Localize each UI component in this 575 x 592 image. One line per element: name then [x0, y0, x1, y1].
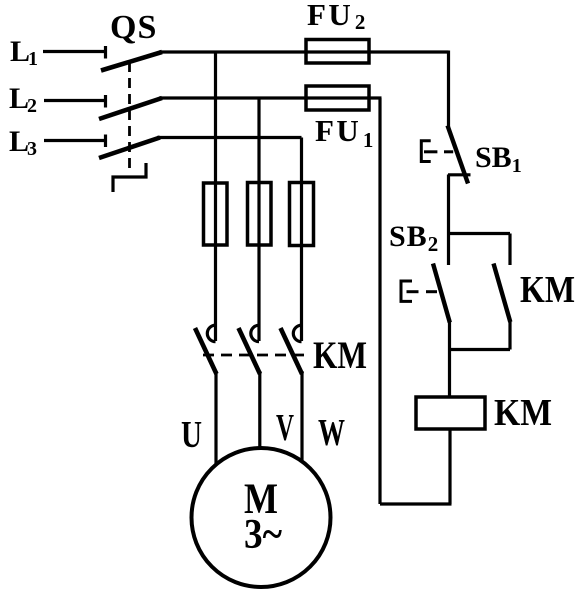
svg-text:KM: KM [494, 392, 552, 434]
motor M body [192, 448, 331, 587]
wire branch top node [449, 232, 511, 235]
wire FU1 output down to bottom rail [378, 98, 381, 504]
switch QS handle [113, 163, 146, 192]
wire L2 lead [44, 99, 104, 102]
wire SB2 to coil [448, 322, 451, 397]
svg-text:QS: QS [110, 9, 157, 46]
pushbutton SB2 blade [433, 264, 450, 323]
wire L1 lead [43, 50, 104, 53]
wire L2 phase through FU1 to return rail [159, 96, 382, 99]
wire SB1 to SB2 [447, 175, 450, 266]
contactor KM auxiliary contact blade [494, 264, 511, 323]
contactor KM coil [416, 397, 485, 429]
switch QS linkage dashed line [128, 62, 131, 174]
fuse FU(B) body [248, 183, 272, 246]
contactor KM main contact C fixed terminal [293, 325, 301, 341]
pushbutton SB1 actuator [421, 141, 430, 162]
wire FU2 output drop to SB1 [447, 51, 450, 128]
contactor KM main contact B blade [239, 328, 261, 374]
fuse FU(C) body [290, 183, 314, 246]
fuse FU2 body [306, 40, 369, 64]
switch QS blade 2 [99, 98, 162, 119]
wire L3 phase to fuse C [157, 136, 302, 139]
wire contact A to motor terminal U [214, 371, 217, 465]
fuse FU1 body [306, 86, 369, 110]
svg-text:KM: KM [313, 334, 367, 377]
wire contact B to motor terminal V [258, 371, 261, 449]
switch QS blade 1 [101, 52, 162, 71]
pushbutton SB1 lower terminal stub [448, 173, 471, 176]
wire phase C drop through fuse C [300, 138, 303, 342]
svg-text:3~: 3~ [244, 512, 282, 558]
wire phase B drop through fuse B [257, 98, 260, 341]
wire contact C to motor terminal W [300, 371, 303, 462]
svg-text:V: V [276, 407, 294, 449]
contactor KM auxiliary branch wire lower [508, 320, 511, 350]
contactor KM main linkage dashed line [203, 354, 310, 357]
contactor KM main contact A blade [195, 328, 217, 374]
svg-text:W: W [318, 412, 345, 454]
wire L1 phase through FU2 to control drop [159, 50, 449, 53]
pushbutton SB1 blade [448, 126, 469, 184]
fuse FU(A) body [204, 183, 228, 245]
contactor KM main contact C blade [281, 328, 303, 374]
wire L3 lead [44, 139, 104, 142]
svg-text:KM: KM [520, 269, 575, 311]
pushbutton SB2 actuator [401, 281, 412, 301]
wire coil to bottom rail [448, 429, 451, 504]
wire bottom rail [380, 502, 452, 505]
contactor KM main contact A fixed terminal [207, 325, 215, 341]
switch QS blade 3 [99, 138, 160, 159]
svg-text:U: U [181, 414, 202, 456]
wire branch bottom node [450, 348, 511, 351]
wire phase A drop through fuse A [214, 52, 217, 341]
contactor KM main contact B fixed terminal [251, 325, 259, 341]
contactor KM auxiliary branch wire upper [508, 234, 511, 266]
